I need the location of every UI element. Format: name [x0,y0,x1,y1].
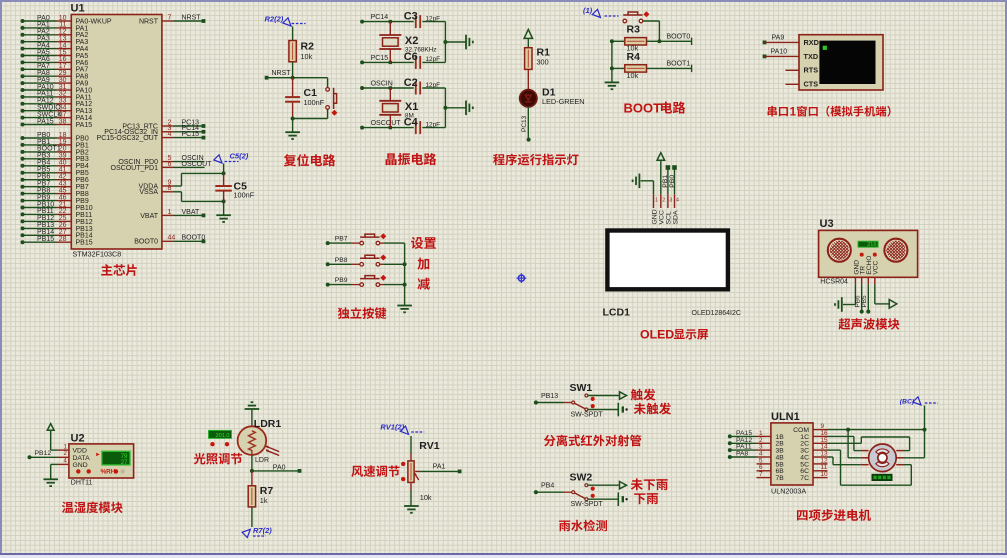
svg-text:PB3: PB3 [76,156,89,163]
svg-text:LCD1: LCD1 [603,307,631,319]
svg-text:27: 27 [59,229,67,236]
svg-text:12pF: 12pF [426,56,441,63]
svg-text:(1): (1) [583,6,593,15]
svg-text:PA15: PA15 [76,122,93,129]
svg-text:BOOT1: BOOT1 [37,146,61,153]
svg-text:LED-GREEN: LED-GREEN [542,97,585,106]
svg-text:R3: R3 [627,24,641,36]
svg-text:PC14: PC14 [371,14,389,21]
svg-text:25: 25 [59,215,67,222]
svg-text:PB12: PB12 [76,219,93,226]
svg-text:U2: U2 [71,433,85,445]
svg-text:10k: 10k [420,493,432,502]
svg-text:216: 216 [867,242,876,248]
svg-text:PB4: PB4 [76,163,89,170]
svg-text:38: 38 [59,118,67,125]
svg-text:PB14: PB14 [76,233,93,240]
svg-text:PB8: PB8 [37,187,50,194]
svg-text:OLED: OLED [640,328,674,342]
svg-text:6: 6 [168,161,172,168]
svg-text:LDR1: LDR1 [254,418,282,430]
svg-text:12pF: 12pF [426,121,441,128]
svg-text:PB0: PB0 [669,175,676,188]
svg-text:PB4: PB4 [37,160,50,167]
svg-text:SW1: SW1 [570,382,593,394]
svg-text:STM32F103C8: STM32F103C8 [73,250,122,259]
svg-text:C4: C4 [404,116,419,128]
svg-text:2: 2 [64,451,68,457]
svg-text:45: 45 [59,187,67,194]
svg-text:X2: X2 [405,35,418,47]
svg-text:PA1: PA1 [433,463,446,470]
svg-text:R2(2): R2(2) [265,15,284,24]
svg-text:OSCOUT: OSCOUT [182,161,213,168]
svg-text:1: 1 [655,198,658,204]
svg-text:2: 2 [662,198,665,204]
svg-text:PB15: PB15 [76,240,93,247]
svg-text:ULN2003A: ULN2003A [771,486,806,495]
svg-text:7B: 7B [776,475,785,482]
svg-text:GND: GND [73,462,88,469]
svg-text:PB13: PB13 [541,393,558,400]
svg-text:CTS: CTS [804,80,819,89]
svg-text:PA10: PA10 [771,49,788,56]
svg-text:RV1: RV1 [419,440,439,452]
svg-text:PB12: PB12 [37,215,54,222]
svg-text:PA9: PA9 [772,35,785,42]
svg-text:1: 1 [790,107,797,119]
svg-text:VBAT: VBAT [182,209,200,216]
svg-text:8: 8 [168,185,172,192]
svg-text:TXD: TXD [804,52,819,61]
svg-text:R7(2): R7(2) [253,526,272,535]
svg-text:PB8: PB8 [76,191,89,198]
svg-text:PC13: PC13 [521,115,528,132]
svg-text:VCC: VCC [659,210,666,224]
svg-text:VSSA: VSSA [139,189,158,196]
svg-text:LDR: LDR [255,457,269,464]
svg-text:C5(2): C5(2) [230,152,249,161]
svg-text:PB7: PB7 [335,236,348,243]
svg-text:NRST: NRST [139,18,159,25]
svg-text:HCSR04: HCSR04 [820,278,848,285]
svg-text:PB0: PB0 [37,132,50,139]
svg-text:PB15: PB15 [37,236,54,243]
svg-text:OLED12864I2C: OLED12864I2C [692,310,741,317]
svg-text:1k: 1k [260,496,268,505]
svg-text:DHT11: DHT11 [71,479,93,486]
svg-text:PA15: PA15 [37,118,54,125]
svg-text:BOOT0: BOOT0 [667,34,691,41]
svg-text:20: 20 [59,146,67,153]
svg-text:VDD: VDD [73,448,87,455]
svg-text:100nF: 100nF [234,191,255,200]
svg-text:1: 1 [168,209,172,216]
svg-text:PB8: PB8 [335,257,348,264]
svg-text:28: 28 [59,236,67,243]
svg-text:SW2: SW2 [570,472,593,484]
svg-text:BOOT: BOOT [624,101,662,116]
svg-text:10k: 10k [301,52,313,61]
svg-text:3: 3 [669,198,672,204]
svg-text:C2: C2 [404,77,418,89]
svg-text:R2: R2 [301,41,315,53]
svg-text:PA0: PA0 [273,465,286,472]
svg-text:18: 18 [59,132,67,139]
svg-text:PB14: PB14 [37,229,54,236]
svg-text:U1: U1 [71,3,85,15]
svg-text:300: 300 [537,58,549,67]
svg-text:ULN1: ULN1 [771,411,800,423]
svg-text:RTS: RTS [804,66,819,75]
svg-text:PB1: PB1 [76,142,89,149]
svg-text:RXD: RXD [804,38,819,47]
svg-text:PC15: PC15 [371,55,389,62]
svg-text:40: 40 [59,160,67,167]
svg-text:PC15: PC15 [182,131,200,138]
svg-text:U3: U3 [820,218,834,230]
svg-text:C1: C1 [304,87,318,99]
svg-text:PB11: PB11 [37,208,54,215]
svg-text:SDA: SDA [672,210,679,224]
svg-text:201.0: 201.0 [216,433,230,439]
svg-text:PB11: PB11 [76,212,93,219]
svg-text:C6: C6 [404,51,418,63]
svg-text:SW-SPDT: SW-SPDT [571,411,604,418]
svg-text:100nF: 100nF [304,98,325,107]
svg-text:4: 4 [676,198,679,204]
svg-text:PA8: PA8 [736,451,749,458]
svg-text:22: 22 [59,208,67,215]
svg-text:12pF: 12pF [426,82,441,89]
svg-text:SW-SPDT: SW-SPDT [571,501,604,508]
svg-text:42: 42 [59,174,67,181]
svg-text:PB5: PB5 [861,295,868,308]
svg-text:DATA: DATA [73,455,91,462]
svg-text:%RH: %RH [101,469,116,476]
svg-text:GND: GND [651,209,658,224]
svg-text:4: 4 [64,458,68,464]
svg-text:PB6: PB6 [37,174,50,181]
svg-text:VBAT: VBAT [140,213,158,220]
svg-text:PB4: PB4 [541,483,554,490]
svg-text:C3: C3 [404,10,418,22]
svg-text:BOOT1: BOOT1 [667,61,691,68]
svg-text:27: 27 [121,459,128,466]
svg-text:NRST: NRST [182,14,202,21]
svg-text:R4: R4 [627,51,641,63]
svg-text:X1: X1 [405,101,418,113]
svg-text:7: 7 [759,471,763,478]
svg-text:10: 10 [821,471,829,478]
svg-text:VCC: VCC [873,260,880,274]
svg-text:PB12: PB12 [35,450,52,457]
svg-text:4: 4 [168,131,172,138]
svg-text:10k: 10k [627,71,639,80]
svg-text:7C: 7C [800,475,809,482]
svg-text:OSCOUT: OSCOUT [371,120,402,127]
svg-text:OSCOUT_PD1: OSCOUT_PD1 [111,165,159,172]
svg-text:7: 7 [168,14,172,21]
svg-text:BOOT0: BOOT0 [134,239,158,246]
svg-text:NRST: NRST [272,70,292,77]
svg-text:PB6: PB6 [76,177,89,184]
svg-text:12pF: 12pF [426,15,441,22]
svg-text:PC15-OSC32_OUT: PC15-OSC32_OUT [97,135,159,142]
svg-text:PB9: PB9 [335,277,348,284]
